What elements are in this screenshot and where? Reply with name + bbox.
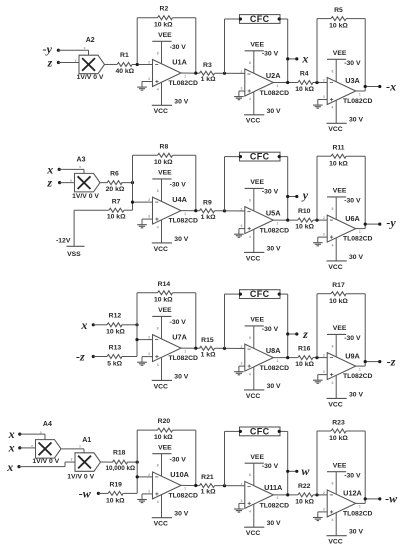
svg-text:3: 3 — [323, 508, 325, 512]
svg-text:R15: R15 — [201, 337, 214, 344]
svg-text:VCC: VCC — [328, 264, 342, 271]
svg-text:VCC: VCC — [246, 255, 260, 262]
junction U7A output node — [194, 347, 197, 350]
svg-text:-30 V: -30 V — [344, 473, 361, 480]
svg-text:10 kΩ: 10 kΩ — [107, 214, 126, 221]
svg-text:U8A: U8A — [266, 346, 281, 355]
svg-text:R13: R13 — [109, 345, 122, 352]
svg-text:TL082CD: TL082CD — [260, 502, 290, 509]
resistor R11 10 kΩ — [329, 145, 348, 168]
node -x output terminal — [364, 79, 397, 93]
ground at U1A non-inverting input — [137, 82, 152, 91]
op-amp U7A TL082CD — [148, 307, 198, 390]
svg-text:VCC: VCC — [246, 393, 260, 400]
resistor R18 10,000 kΩ — [106, 450, 136, 473]
svg-text:10 kΩ: 10 kΩ — [295, 86, 314, 93]
svg-text:VCC: VCC — [328, 539, 342, 546]
resistor R9 1 kΩ — [200, 199, 217, 220]
svg-text:4: 4 — [249, 97, 251, 101]
svg-text:-30 V: -30 V — [344, 60, 361, 67]
wire feedback loop of U7A — [137, 293, 196, 348]
svg-text:4: 4 — [331, 106, 333, 110]
svg-text:CFC: CFC — [250, 152, 270, 162]
svg-text:-y: -y — [43, 42, 53, 56]
svg-text:30 V: 30 V — [267, 245, 281, 252]
resistor R16 10 kΩ — [295, 346, 314, 369]
node x input terminal — [46, 162, 61, 176]
svg-text:VEE: VEE — [333, 462, 347, 469]
svg-text:10 kΩ: 10 kΩ — [295, 224, 314, 231]
junction U11A output node — [286, 493, 289, 496]
wire feedback loop of U10A — [137, 430, 196, 485]
svg-text:R19: R19 — [109, 482, 122, 489]
svg-text:8: 8 — [157, 326, 159, 330]
wire U2A output to R4 — [273, 82, 298, 84]
wire U8A output to R16 — [273, 357, 298, 359]
svg-text:1: 1 — [359, 367, 361, 371]
op-amp U5A TL082CD — [240, 179, 289, 262]
svg-text:R8: R8 — [160, 143, 169, 150]
resistor R1 40 kΩ — [115, 52, 134, 75]
wire summing vertical of U4A — [132, 155, 134, 210]
wire -w input through R19 — [98, 492, 137, 494]
svg-text:TL082CD: TL082CD — [168, 80, 198, 87]
svg-text:40 kΩ: 40 kΩ — [115, 68, 134, 75]
svg-text:4: 4 — [249, 235, 251, 239]
op-amp U12A TL082CD — [323, 462, 373, 545]
resistor R3 1 kΩ — [200, 62, 217, 83]
ground at U2A non-inverting input — [234, 91, 245, 100]
svg-text:VEE: VEE — [158, 444, 172, 451]
svg-text:w: w — [301, 464, 310, 478]
ground at U4A non-inverting input — [137, 219, 152, 228]
svg-text:TL082CD: TL082CD — [168, 355, 198, 362]
svg-text:4: 4 — [249, 510, 251, 514]
svg-text:30 V: 30 V — [267, 520, 281, 527]
svg-text:8: 8 — [249, 336, 251, 340]
wire x input to multiplier A3 x pin — [59, 169, 84, 173]
junction U1A output node — [194, 72, 197, 75]
svg-text:10 kΩ: 10 kΩ — [295, 361, 314, 368]
svg-text:x: x — [301, 52, 308, 66]
svg-text:TL082CD: TL082CD — [260, 228, 290, 235]
junction at U12A inverting input — [315, 493, 318, 496]
resistor R20 10 kΩ — [154, 418, 173, 441]
svg-text:3: 3 — [148, 490, 150, 494]
svg-text:TL082CD: TL082CD — [343, 236, 373, 243]
svg-text:VCC: VCC — [246, 530, 260, 537]
node z input terminal — [46, 176, 61, 190]
svg-text:4: 4 — [157, 363, 159, 367]
svg-text:1V/V 0 V: 1V/V 0 V — [72, 193, 99, 200]
svg-text:R17: R17 — [332, 282, 345, 289]
svg-text:30 V: 30 V — [267, 108, 281, 115]
svg-text:1: 1 — [184, 74, 186, 78]
junction at U10A inverting input — [136, 475, 139, 478]
wire x input through R12 — [93, 324, 137, 326]
svg-text:x: x — [40, 430, 42, 434]
svg-text:U2A: U2A — [266, 71, 281, 80]
wire A1 output to R18 — [101, 461, 114, 463]
svg-text:30 V: 30 V — [174, 98, 188, 105]
svg-text:-30 V: -30 V — [262, 188, 279, 195]
svg-text:30 V: 30 V — [349, 391, 363, 398]
junction CFC input node — [223, 209, 226, 212]
svg-text:TL082CD: TL082CD — [168, 218, 198, 225]
svg-text:-30 V: -30 V — [262, 463, 279, 470]
resistor R8 10 kΩ — [154, 143, 173, 166]
node y tap stub — [286, 188, 309, 202]
svg-text:2: 2 — [323, 491, 325, 495]
svg-text:8: 8 — [331, 344, 333, 348]
node -z output terminal — [364, 354, 396, 368]
resistor R14 10 kΩ — [154, 281, 173, 304]
svg-text:1: 1 — [276, 496, 278, 500]
svg-text:30 V: 30 V — [349, 116, 363, 123]
svg-text:z: z — [46, 176, 52, 190]
svg-text:2: 2 — [240, 208, 242, 212]
svg-text:VEE: VEE — [158, 32, 172, 39]
wire feedback loop of U12A — [317, 431, 365, 503]
wire -y input to multiplier A2 x pin — [58, 50, 88, 55]
svg-text:U3A: U3A — [345, 76, 360, 85]
svg-text:R18: R18 — [113, 450, 126, 457]
svg-text:y: y — [301, 188, 309, 202]
resistor R4 10 kΩ — [295, 71, 314, 94]
wire -z input through R13 — [93, 356, 137, 358]
svg-text:10 kΩ: 10 kΩ — [329, 435, 348, 442]
svg-text:A2: A2 — [86, 37, 95, 44]
svg-text:4: 4 — [331, 518, 333, 522]
junction U10A output node — [194, 484, 197, 487]
op-amp U3A TL082CD — [323, 50, 373, 133]
svg-text:y: y — [75, 58, 77, 62]
svg-text:8: 8 — [249, 198, 251, 202]
svg-text:1: 1 — [184, 349, 186, 353]
svg-text:3: 3 — [323, 233, 325, 237]
svg-text:VEE: VEE — [250, 317, 264, 324]
svg-text:-30 V: -30 V — [344, 335, 361, 342]
node z tap stub — [286, 327, 308, 341]
resistor R22 10 kΩ — [295, 483, 314, 506]
svg-text:x: x — [79, 165, 81, 169]
svg-text:R4: R4 — [300, 71, 309, 78]
wire CFC left leg — [225, 157, 240, 211]
svg-text:10 kΩ: 10 kΩ — [154, 297, 173, 304]
svg-text:x: x — [8, 441, 15, 455]
ground at U11A non-inverting input — [234, 503, 245, 512]
svg-text:5 kΩ: 5 kΩ — [107, 361, 122, 368]
op-amp U1A TL082CD — [148, 32, 198, 115]
ground at U3A non-inverting input — [313, 100, 327, 109]
junction at U9A inverting input — [315, 356, 318, 359]
junction at U7A inverting input — [135, 338, 138, 341]
resistor R2 10 kΩ — [154, 6, 173, 29]
junction R12 joins feedback line — [135, 323, 138, 326]
svg-text:R1: R1 — [120, 52, 129, 59]
svg-text:8: 8 — [249, 473, 251, 477]
svg-text:y: y — [70, 179, 72, 183]
svg-text:R20: R20 — [158, 418, 171, 425]
resistor R7 10 kΩ — [107, 198, 126, 220]
svg-text:VCC: VCC — [328, 126, 342, 133]
wire A4 output to multiplier A1 x pin — [61, 449, 84, 453]
wire R7 to VSS rail — [74, 210, 132, 246]
svg-text:TL082CD: TL082CD — [343, 98, 373, 105]
op-amp U9A TL082CD — [323, 325, 373, 408]
svg-text:z: z — [302, 327, 308, 341]
node w tap stub — [286, 464, 310, 478]
wire summing node to U10A inverting input — [137, 476, 152, 478]
junction R6 joins feedback line — [131, 181, 134, 184]
svg-text:U11A: U11A — [264, 483, 283, 492]
svg-text:30 V: 30 V — [174, 511, 188, 518]
svg-text:1: 1 — [276, 359, 278, 363]
svg-text:2: 2 — [323, 354, 325, 358]
wire CFC right leg — [280, 157, 288, 221]
op-amp U4A TL082CD — [148, 170, 198, 253]
ground at U5A non-inverting input — [234, 229, 245, 238]
svg-text:VCC: VCC — [154, 383, 168, 390]
wire CFC left leg — [225, 431, 240, 485]
wire R16 to U9A inverting input — [313, 357, 327, 359]
svg-text:TL082CD: TL082CD — [260, 365, 290, 372]
svg-text:CFC: CFC — [250, 427, 270, 437]
resistor R10 10 kΩ — [295, 208, 314, 231]
node z input terminal — [47, 55, 60, 69]
svg-text:3: 3 — [148, 352, 150, 356]
svg-text:y: y — [31, 444, 33, 448]
svg-text:R22: R22 — [298, 483, 311, 490]
wire CFC left leg — [225, 294, 240, 348]
svg-text:1: 1 — [184, 487, 186, 491]
junction at U6A inverting input — [315, 219, 318, 222]
svg-text:2: 2 — [323, 216, 325, 220]
svg-text:4: 4 — [157, 225, 159, 229]
wire summing vertical of U7A — [136, 293, 138, 357]
svg-text:30 V: 30 V — [349, 529, 363, 536]
svg-text:4: 4 — [249, 372, 251, 376]
block CFC of U8A — [239, 289, 281, 299]
wire U7A output to R15 — [181, 347, 200, 349]
wire U5A output to R10 — [273, 219, 298, 221]
svg-text:8: 8 — [249, 61, 251, 65]
svg-text:VSS: VSS — [67, 251, 81, 258]
wire R4 to U3A inverting input — [313, 82, 327, 84]
svg-text:U9A: U9A — [345, 351, 360, 360]
svg-text:R9: R9 — [203, 199, 212, 206]
svg-text:2: 2 — [240, 70, 242, 74]
svg-text:U5A: U5A — [266, 208, 281, 217]
svg-text:10 kΩ: 10 kΩ — [329, 23, 348, 30]
node x input terminal 1 — [8, 427, 22, 441]
svg-text:10 kΩ: 10 kΩ — [106, 497, 125, 504]
svg-text:2: 2 — [148, 198, 150, 202]
svg-text:-30 V: -30 V — [262, 326, 279, 333]
op-amp U8A TL082CD — [240, 317, 289, 400]
svg-text:x: x — [84, 46, 86, 50]
op-amp U11A TL082CD — [240, 454, 289, 537]
svg-text:1: 1 — [276, 84, 278, 88]
junction CFC input node — [223, 347, 226, 350]
wire summing node to U7A inverting input — [137, 339, 153, 341]
svg-text:R23: R23 — [332, 419, 345, 426]
svg-text:8: 8 — [331, 482, 333, 486]
svg-text:-z: -z — [387, 354, 396, 368]
svg-text:-30 V: -30 V — [170, 457, 187, 464]
svg-text:10,000 kΩ: 10,000 kΩ — [106, 465, 136, 472]
svg-text:VCC: VCC — [328, 401, 342, 408]
wire feedback loop of U3A — [317, 19, 365, 91]
svg-text:20 kΩ: 20 kΩ — [106, 186, 125, 193]
svg-text:1 kΩ: 1 kΩ — [201, 489, 216, 496]
node -y output terminal — [364, 216, 397, 230]
svg-text:10 kΩ: 10 kΩ — [154, 22, 173, 29]
node -w output terminal — [364, 492, 398, 506]
resistor R19 10 kΩ — [106, 482, 125, 505]
svg-text:-w: -w — [79, 487, 92, 501]
wire R15 to U8A inverting input — [215, 347, 245, 349]
svg-text:2: 2 — [240, 345, 242, 349]
junction U5A output node — [286, 219, 289, 222]
svg-text:3: 3 — [240, 87, 242, 91]
svg-text:x: x — [6, 460, 13, 474]
block CFC of U11A — [239, 427, 281, 437]
svg-text:VEE: VEE — [250, 454, 264, 461]
wire R6 to summing node — [122, 182, 133, 184]
resistor R17 10 kΩ — [329, 282, 348, 305]
svg-text:A1: A1 — [82, 437, 91, 444]
svg-text:R14: R14 — [158, 281, 171, 288]
svg-text:8: 8 — [157, 51, 159, 55]
wire U12A output — [356, 502, 366, 504]
svg-text:3: 3 — [240, 362, 242, 366]
node x input terminal 2 — [8, 441, 22, 455]
svg-text:-w: -w — [385, 492, 398, 506]
svg-text:R21: R21 — [201, 474, 214, 481]
svg-text:10 kΩ: 10 kΩ — [106, 329, 125, 336]
svg-text:CFC: CFC — [250, 14, 270, 24]
resistor R21 1 kΩ — [200, 474, 217, 495]
svg-text:VEE: VEE — [333, 325, 347, 332]
wire U6A output — [356, 228, 366, 230]
junction at U1A inverting input — [136, 63, 139, 66]
op-amp U2A TL082CD — [240, 42, 289, 125]
svg-text:30 V: 30 V — [267, 383, 281, 390]
wire z input to multiplier A3 y pin — [60, 182, 75, 184]
svg-text:-12V: -12V — [56, 238, 71, 245]
svg-text:R6: R6 — [110, 171, 119, 178]
wire CFC right leg — [280, 431, 288, 495]
svg-text:VEE: VEE — [333, 50, 347, 57]
svg-text:CFC: CFC — [250, 289, 270, 299]
svg-text:VEE: VEE — [158, 170, 172, 177]
svg-text:1V/V 0 V: 1V/V 0 V — [32, 458, 59, 465]
junction at U3A inverting input — [315, 81, 318, 84]
svg-text:-y: -y — [386, 216, 396, 230]
svg-text:A3: A3 — [77, 157, 86, 164]
svg-text:4: 4 — [331, 381, 333, 385]
multiplier A1 1V/V 0 V — [67, 437, 100, 481]
power -12V VSS rail — [56, 238, 84, 258]
svg-text:2: 2 — [323, 78, 325, 82]
node -w input terminal — [79, 487, 100, 501]
svg-text:TL082CD: TL082CD — [343, 510, 373, 517]
node -z input terminal — [76, 350, 95, 364]
svg-text:10 kΩ: 10 kΩ — [295, 499, 314, 506]
ground at U10A non-inverting input — [137, 494, 152, 503]
resistor R6 20 kΩ — [106, 171, 125, 193]
multiplier A4 1V/V 0 V — [31, 421, 61, 465]
junction U4A output node — [194, 209, 197, 212]
svg-text:-30 V: -30 V — [170, 319, 187, 326]
svg-text:2: 2 — [240, 482, 242, 486]
svg-text:VEE: VEE — [250, 179, 264, 186]
svg-text:VCC: VCC — [154, 108, 168, 115]
svg-text:3: 3 — [240, 499, 242, 503]
svg-text:1 kΩ: 1 kΩ — [201, 76, 216, 83]
svg-text:VCC: VCC — [154, 521, 168, 528]
svg-text:30 V: 30 V — [174, 236, 188, 243]
svg-text:1V/V 0 V: 1V/V 0 V — [67, 474, 94, 481]
resistor R13 5 kΩ — [107, 345, 123, 368]
svg-text:TL082CD: TL082CD — [343, 373, 373, 380]
wire summing node to U4A inverting input — [133, 201, 153, 203]
svg-text:y: y — [71, 457, 73, 461]
svg-text:R7: R7 — [112, 198, 121, 205]
svg-text:4: 4 — [157, 500, 159, 504]
wire z input to multiplier A2 y pin — [58, 62, 79, 64]
svg-text:10 kΩ: 10 kΩ — [154, 159, 173, 166]
svg-text:3: 3 — [323, 95, 325, 99]
svg-text:x: x — [79, 444, 81, 448]
wire U1A output to R3 — [181, 72, 200, 74]
svg-text:U1A: U1A — [172, 57, 187, 66]
wire x3 to multiplier A1 y pin — [19, 462, 75, 467]
svg-text:R2: R2 — [160, 6, 169, 13]
svg-text:U12A: U12A — [343, 489, 362, 498]
ground at U9A non-inverting input — [313, 375, 327, 384]
wire A3 output to R6 — [100, 182, 108, 184]
svg-text:2: 2 — [148, 473, 150, 477]
svg-text:R5: R5 — [334, 7, 343, 14]
wire feedback loop of U9A — [317, 294, 365, 366]
ground at U6A non-inverting input — [313, 237, 327, 246]
wire feedback loop of U4A — [133, 155, 196, 210]
svg-text:-x: -x — [386, 79, 396, 93]
svg-text:VEE: VEE — [333, 188, 347, 195]
svg-text:8: 8 — [331, 207, 333, 211]
wire U4A output to R9 — [181, 210, 200, 212]
wire feedback loop of U6A — [317, 156, 365, 228]
resistor R23 10 kΩ — [329, 419, 348, 442]
svg-text:VCC: VCC — [246, 118, 260, 125]
wire CFC right leg — [280, 19, 288, 83]
svg-text:x: x — [8, 427, 15, 441]
svg-text:-30 V: -30 V — [344, 198, 361, 205]
wire R21 to U11A inverting input — [215, 485, 245, 487]
svg-text:VEE: VEE — [158, 307, 172, 314]
svg-text:10 kΩ: 10 kΩ — [154, 434, 173, 441]
wire A2 output to R1 — [105, 63, 118, 65]
junction CFC input node — [223, 484, 226, 487]
ground at U7A non-inverting input — [137, 357, 152, 366]
svg-text:R12: R12 — [109, 313, 122, 320]
resistor R15 1 kΩ — [200, 337, 217, 358]
svg-text:10 kΩ: 10 kΩ — [329, 160, 348, 167]
block CFC of U5A — [239, 152, 281, 162]
wire U10A output to R21 — [181, 484, 200, 486]
